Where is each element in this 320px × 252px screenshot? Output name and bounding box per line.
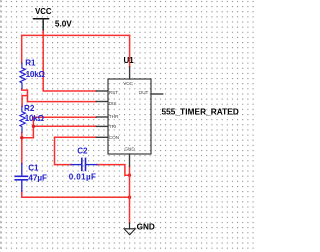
svg-text:C1: C1 xyxy=(28,163,39,172)
pin RST stub (pin 4) xyxy=(96,90,108,92)
svg-text:C2: C2 xyxy=(77,147,88,156)
svg-text:10kΩ: 10kΩ xyxy=(26,70,46,79)
node R2-C1 junction xyxy=(20,136,23,139)
pin TRI stub (pin 2) xyxy=(96,125,108,127)
svg-text:GND: GND xyxy=(137,222,155,231)
wire R2 bottom to C1 rail xyxy=(21,133,23,164)
wire VCC stub red xyxy=(42,30,44,36)
wire TRI xyxy=(33,125,96,127)
wire C1 bottom xyxy=(22,191,130,197)
node TRI junction xyxy=(32,125,35,128)
node bottom GND junction xyxy=(128,196,131,199)
svg-text:THR: THR xyxy=(109,114,119,119)
svg-text:GND: GND xyxy=(124,146,135,151)
svg-text:0.01µF: 0.01µF xyxy=(69,173,96,182)
ground GND symbol xyxy=(129,223,131,229)
wire VCC top rail xyxy=(22,34,130,36)
wire R1 bottom jog xyxy=(22,89,28,107)
pin OUT stub (pin 3) xyxy=(151,93,163,95)
wire DIS xyxy=(28,101,97,103)
power VCC symbol xyxy=(34,18,49,20)
wire R2 bottom jog to THR xyxy=(22,117,97,138)
wire CON xyxy=(55,137,97,164)
wire U1 VCC pin drop xyxy=(129,35,131,67)
capacitor C2 xyxy=(71,158,97,170)
resistor R2 xyxy=(20,106,25,132)
svg-text:10kΩ: 10kΩ xyxy=(25,114,45,123)
pin THR stub (pin 6) xyxy=(96,116,108,118)
svg-text:R2: R2 xyxy=(24,104,35,113)
node C2-GND junction xyxy=(128,174,131,177)
pin GND stub (pin 1) xyxy=(129,154,131,166)
svg-text:RST: RST xyxy=(109,90,118,95)
op U1 555 timer body xyxy=(108,79,151,154)
pin VCC stub (pin 8) xyxy=(129,67,131,79)
wire left rail top (VCC to R1) xyxy=(21,35,23,63)
svg-text:OUT: OUT xyxy=(139,90,149,95)
svg-text:DIS: DIS xyxy=(109,101,117,106)
pin DIS stub (pin 7) xyxy=(96,101,108,103)
capacitor C1 xyxy=(15,164,27,192)
svg-text:VCC: VCC xyxy=(35,7,52,16)
svg-text:VCC: VCC xyxy=(123,81,133,86)
svg-text:R1: R1 xyxy=(25,59,36,68)
svg-text:5.0V: 5.0V xyxy=(55,19,72,28)
wire RST drop xyxy=(43,35,96,91)
pin CON stub (pin 5) xyxy=(96,136,108,138)
resistor R1 xyxy=(20,63,25,88)
svg-text:U1: U1 xyxy=(124,56,135,65)
svg-text:TRI: TRI xyxy=(109,124,116,129)
svg-text:CON: CON xyxy=(109,135,119,140)
wire GND drop xyxy=(129,166,131,223)
wire C2 right to GND drop xyxy=(97,165,130,176)
svg-text:555_TIMER_RATED: 555_TIMER_RATED xyxy=(162,108,239,117)
svg-text:47µF: 47µF xyxy=(28,173,47,182)
